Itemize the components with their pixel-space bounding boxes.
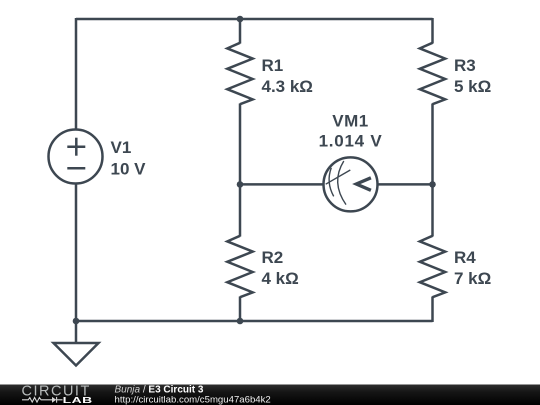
- svg-text:R3: R3: [454, 56, 476, 75]
- wire top rail: [76, 18, 433, 21]
- svg-text:V1: V1: [111, 138, 132, 157]
- svg-text:7 kΩ: 7 kΩ: [454, 269, 491, 288]
- svg-text:R1: R1: [262, 56, 284, 75]
- svg-text:R4: R4: [454, 248, 476, 267]
- svg-text:LAB: LAB: [63, 396, 93, 405]
- node junction dot top (R1 top at top rail): [237, 16, 244, 23]
- V1 plus sign: [67, 138, 85, 156]
- V1 minus sign: [67, 167, 85, 170]
- wire bottom rail: [76, 320, 433, 323]
- wire R1 branch top lead: [239, 19, 242, 44]
- resistor R1: [227, 43, 252, 104]
- node junction dot middle right (R3/R4/VM1): [429, 181, 436, 188]
- wire R2 bottom lead to bottom rail: [239, 297, 242, 322]
- voltmeter VM1 meter glyph: dial arcs and needle: [326, 161, 351, 205]
- wire R1 bottom lead to middle rail: [239, 104, 242, 185]
- wire R4 branch top lead: [431, 184, 434, 236]
- node junction dot bottom left (V1/ground): [73, 318, 80, 325]
- wire left vertical from top rail to V1 top: [75, 18, 78, 130]
- svg-text:4.3 kΩ: 4.3 kΩ: [262, 77, 313, 96]
- wire R2 branch top lead: [239, 184, 242, 236]
- wire V1 bottom lead to bottom rail: [75, 183, 78, 321]
- node junction dot middle left (R1/R2/VM1): [237, 181, 244, 188]
- node junction dot bottom middle (R2 bottom): [237, 318, 244, 325]
- svg-text:1.014 V: 1.014 V: [319, 132, 383, 151]
- wire right vertical top: rail corner to R3: [431, 18, 434, 44]
- resistor R3: [420, 43, 445, 104]
- svg-text:10 V: 10 V: [111, 159, 147, 178]
- ground symbol: [54, 321, 99, 366]
- wire middle rail left segment to voltmeter: [240, 183, 324, 186]
- resistor R4: [420, 236, 445, 297]
- resistor R2: [227, 236, 252, 297]
- voltmeter VM1 circle: [324, 157, 378, 211]
- wire middle rail right segment from voltmeter: [377, 183, 433, 186]
- svg-text:R2: R2: [262, 248, 284, 267]
- CircuitLab logo waveform with resistor zigzag and diode: [22, 397, 63, 403]
- voltage source V1 circle: [49, 130, 103, 184]
- svg-text:http://circuitlab.com/c5mgu47a: http://circuitlab.com/c5mgu47a6b4k2: [115, 394, 271, 405]
- svg-text:4 kΩ: 4 kΩ: [262, 269, 299, 288]
- voltmeter VM1 V glyph (rotated, points left): [356, 178, 371, 191]
- svg-text:5 kΩ: 5 kΩ: [454, 77, 491, 96]
- wire R4 bottom lead to bottom rail corner: [431, 297, 434, 323]
- wire R3 bottom lead to middle rail: [431, 104, 434, 185]
- svg-text:VM1: VM1: [332, 111, 368, 130]
